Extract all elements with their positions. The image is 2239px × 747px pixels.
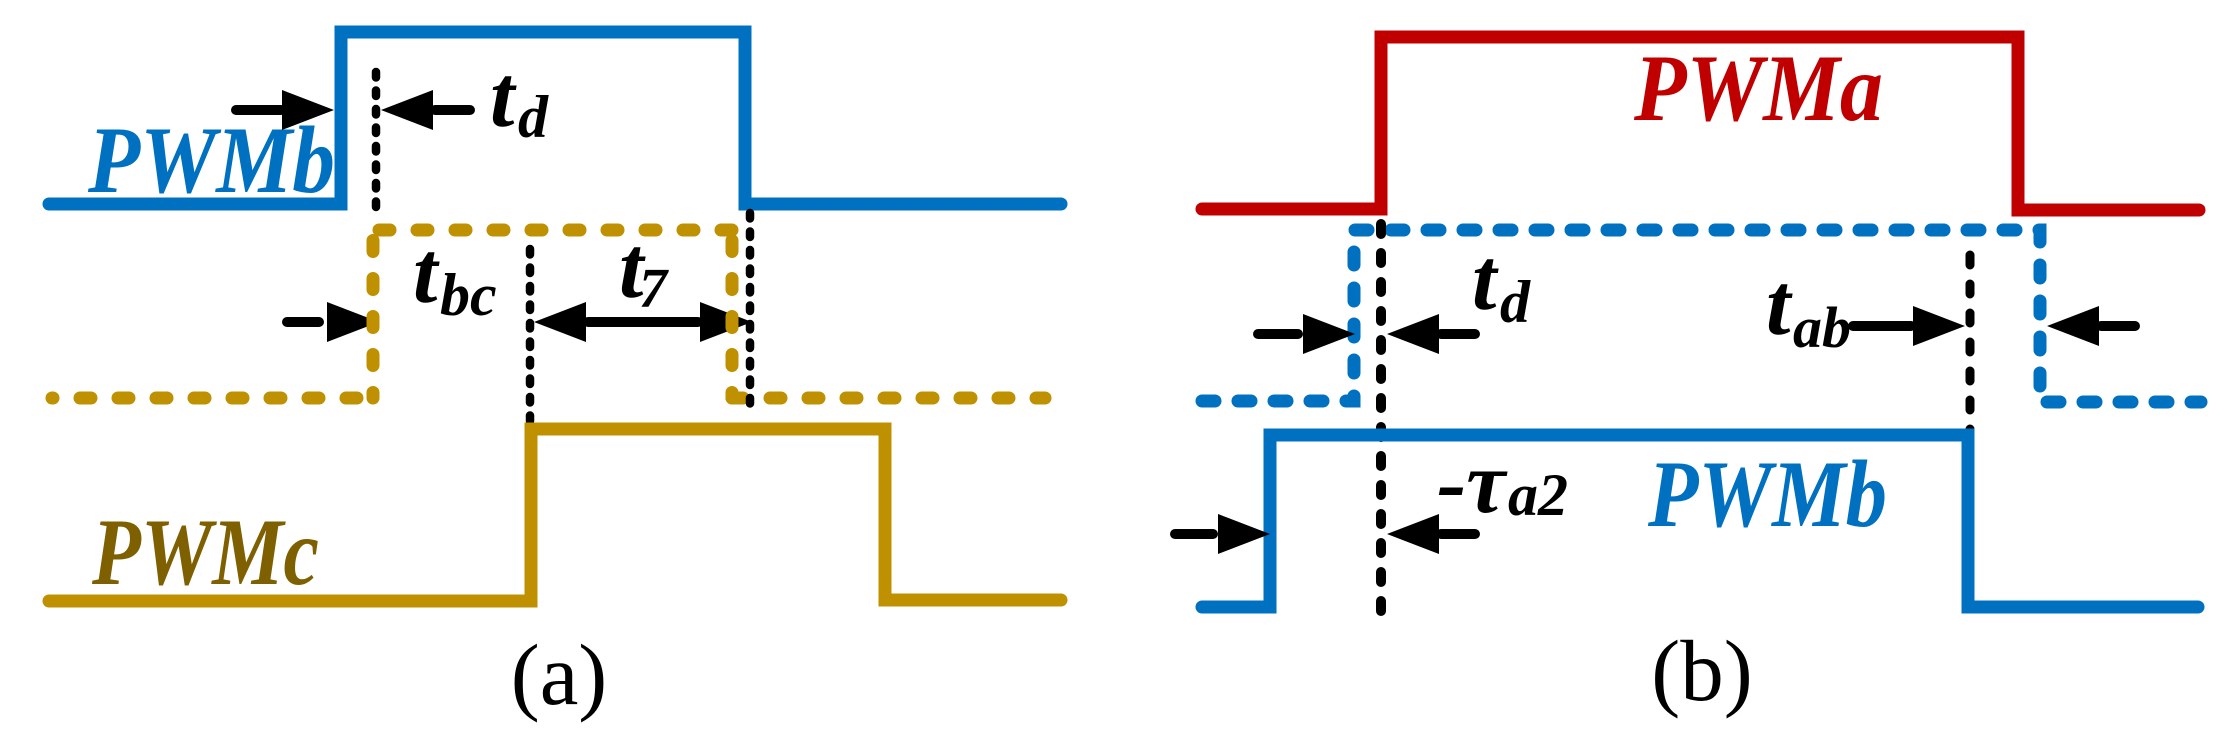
label t7 (619, 220, 669, 320)
waveform PWMb (panel b, blue solid) (1202, 435, 2198, 607)
svg-text:t: t (413, 225, 440, 322)
svg-text:a2: a2 (1508, 462, 1568, 528)
dotted guide line at PWMb rising edge (panel a) (372, 72, 381, 219)
dotted guide line at PWMb falling edge (panel a) (746, 213, 755, 409)
arrow right toward gold dashed rising edge (282, 302, 379, 342)
arrow right toward blue dashed rising edge (panel b) (1253, 314, 1355, 354)
double arrow t7 between dotted lines (534, 302, 752, 342)
arrow left toward dotted line (panel b bottom) (1387, 514, 1480, 554)
waveform PWMa delayed (panel b, blue dashed) (1202, 230, 2201, 402)
svg-text:PWMc: PWMc (91, 499, 319, 605)
svg-text:(a): (a) (511, 626, 608, 723)
svg-text:(b): (b) (1651, 622, 1752, 719)
svg-text:bc: bc (440, 262, 497, 328)
svg-text:PWMb: PWMb (1647, 441, 1887, 547)
svg-text:d: d (518, 84, 549, 150)
label tab (panel b) (1766, 257, 1851, 360)
svg-text:-τ: -τ (1437, 435, 1508, 532)
waveform PWMc (panel a, gold solid) (49, 429, 1061, 601)
dotted guide line at PWMb falling edge (panel b) (1966, 255, 1975, 431)
svg-text:t: t (1472, 232, 1499, 329)
arrow right toward dotted tab line (panel b) (1848, 306, 1965, 346)
label td (panel a) (490, 49, 549, 150)
svg-text:d: d (1500, 269, 1531, 335)
dotted guide line at PWMb rising edge (panel b, long) (1376, 224, 1386, 622)
arrow left toward dotted line td (panel a) (381, 90, 475, 130)
arrow left toward blue dashed falling edge (panel b) (2047, 306, 2140, 346)
label -tau_a2 (1437, 435, 1568, 532)
svg-text:ab: ab (1793, 295, 1851, 360)
dotted guide line at PWMc rising edge (panel a) (526, 249, 535, 422)
label tbc (413, 225, 497, 328)
svg-text:t: t (490, 49, 517, 146)
svg-text:t: t (1766, 257, 1793, 354)
label td (panel b) (1472, 232, 1531, 335)
arrow left toward dotted line td (panel b) (1387, 314, 1480, 354)
arrow right toward PWMb rising edge (panel b bottom) (1170, 514, 1270, 554)
waveform PWMb complement (panel a, gold dashed) (52, 230, 1045, 398)
waveform PWMb (panel a, blue solid) (49, 32, 1061, 204)
svg-text:7: 7 (639, 258, 669, 320)
arrow right toward PWMb rising edge (231, 90, 334, 130)
waveform PWMa (panel b, red solid) (1202, 37, 2199, 210)
svg-text:PWMa: PWMa (1633, 35, 1883, 141)
